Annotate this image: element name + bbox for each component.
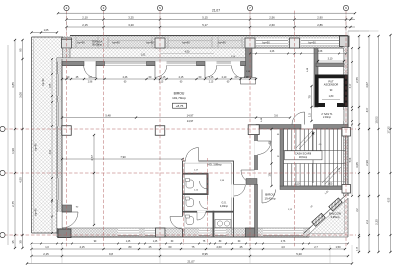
svg-text:2,56: 2,56 [269,16,275,20]
svg-text:1,45: 1,45 [126,241,131,243]
svg-text:5,06: 5,06 [350,157,352,162]
svg-text:2,76: 2,76 [281,241,286,243]
svg-text:3,60: 3,60 [50,149,52,154]
svg-text:1,05: 1,05 [328,183,333,186]
svg-text:3,85: 3,85 [11,82,15,88]
svg-text:7,90: 7,90 [120,155,126,159]
svg-text:1,0: 1,0 [45,245,49,249]
svg-text:2,90: 2,90 [365,160,369,166]
svg-text:hp=90: hp=90 [77,41,85,45]
svg-text:1,55: 1,55 [50,83,52,88]
svg-text:hp=90: hp=90 [308,41,316,45]
svg-text:2,15: 2,15 [209,82,214,84]
svg-text:1,50: 1,50 [335,245,341,249]
svg-text:3,05: 3,05 [355,162,359,168]
svg-text:3,20: 3,20 [128,23,134,27]
svg-text:4,07: 4,07 [367,107,369,112]
svg-text:3,17: 3,17 [350,83,352,88]
svg-text:2,25: 2,25 [375,219,379,225]
svg-text:101,79mp: 101,79mp [172,96,186,100]
svg-text:hp=90: hp=90 [112,41,120,45]
svg-text:4,07: 4,07 [365,82,369,88]
svg-text:36.69mp: 36.69mp [92,43,103,47]
svg-text:hp=90: hp=90 [35,143,38,151]
svg-text:4,77: 4,77 [90,155,94,161]
svg-text:ASCENSOR: ASCENSOR [324,83,339,87]
svg-text:hp=90: hp=90 [146,41,154,45]
svg-text:2,55: 2,55 [355,77,359,83]
svg-text:5,15: 5,15 [202,16,208,20]
svg-text:2,15: 2,15 [82,23,88,27]
svg-text:2,15: 2,15 [179,76,184,79]
svg-text:2,15: 2,15 [43,252,49,256]
svg-text:40: 40 [268,141,272,145]
svg-text:4,15: 4,15 [79,245,85,249]
svg-text:+8,75: +8,75 [176,104,184,108]
svg-text:4,50: 4,50 [185,51,190,54]
svg-text:10: 10 [268,173,272,177]
svg-text:HOL 3,88mp: HOL 3,88mp [207,163,222,166]
svg-text:3,00: 3,00 [19,92,23,98]
svg-text:2,10: 2,10 [82,16,88,20]
svg-text:1,15: 1,15 [209,76,214,79]
svg-text:2,2: 2,2 [365,220,369,224]
svg-text:2,68: 2,68 [318,51,323,53]
svg-text:21,07: 21,07 [187,260,195,264]
svg-text:9,8: 9,8 [109,252,113,256]
svg-text:4,46mp: 4,46mp [220,205,229,208]
svg-text:10,52: 10,52 [375,116,379,124]
svg-text:1,10: 1,10 [244,76,249,79]
svg-text:35: 35 [11,240,15,244]
svg-text:4,0: 4,0 [281,245,285,249]
svg-text:3,25: 3,25 [128,16,134,20]
svg-text:1,90: 1,90 [11,148,15,154]
svg-text:1,62: 1,62 [141,55,146,57]
svg-text:14,97: 14,97 [187,119,194,123]
svg-text:3,6: 3,6 [274,114,278,118]
svg-text:hp=90: hp=90 [42,78,45,86]
svg-text:hp=90: hp=90 [262,41,270,45]
svg-text:CASA SCARII: CASA SCARII [295,152,312,156]
svg-text:2,98: 2,98 [88,82,93,84]
svg-text:4,55: 4,55 [19,177,23,183]
svg-text:6,55: 6,55 [389,197,391,202]
svg-text:1,45: 1,45 [153,241,158,243]
svg-text:hp=90: hp=90 [218,41,226,45]
svg-text:hp=90: hp=90 [35,208,38,216]
svg-text:2,26: 2,26 [270,51,275,53]
svg-text:2,60: 2,60 [216,245,222,249]
svg-text:14,97: 14,97 [187,114,194,118]
svg-text:18,6mp: 18,6mp [299,156,308,159]
svg-text:2,46: 2,46 [123,76,128,79]
svg-text:1,05: 1,05 [44,29,49,32]
svg-text:2,10: 2,10 [222,76,227,79]
svg-text:2,60: 2,60 [269,23,275,27]
svg-text:95: 95 [19,48,23,52]
svg-text:8,95: 8,95 [202,252,208,256]
svg-text:2,75: 2,75 [11,201,15,207]
svg-text:hp=90: hp=90 [182,41,190,45]
svg-text:70: 70 [308,95,312,99]
svg-text:2,86: 2,86 [317,23,323,27]
svg-text:1,15: 1,15 [161,76,166,79]
svg-text:5,17: 5,17 [202,23,208,27]
svg-text:2,15: 2,15 [159,82,164,84]
svg-text:1,10: 1,10 [295,183,300,186]
svg-text:2,7: 2,7 [314,245,318,249]
svg-text:3,95mp: 3,95mp [331,215,340,219]
svg-text:5,48: 5,48 [105,114,111,118]
svg-text:30: 30 [19,240,23,244]
svg-text:BALCON: BALCON [329,212,341,216]
svg-text:2.46mp: 2.46mp [323,116,332,119]
svg-text:1,5: 1,5 [308,113,312,117]
svg-text:5,20: 5,20 [296,252,302,256]
svg-text:3,10: 3,10 [328,58,333,61]
svg-text:2,90: 2,90 [317,16,323,20]
svg-text:19,42mp: 19,42mp [265,197,276,201]
svg-text:1,80: 1,80 [329,95,334,98]
svg-text:21,07: 21,07 [212,9,220,13]
